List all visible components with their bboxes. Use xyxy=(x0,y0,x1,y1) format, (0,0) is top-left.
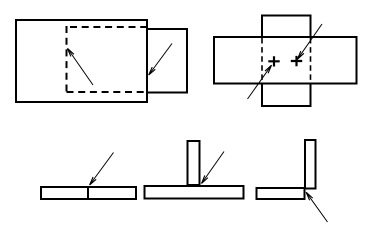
corner joint: horizontal plate xyxy=(257,188,305,199)
cruciform joint: hidden right edge of vertical plate xyxy=(310,38,312,82)
arrow from upper-right to spot weld 2 xyxy=(298,24,323,59)
butt joint: plate bar xyxy=(41,187,136,199)
lap joint: hidden outline of lower plate, left dashed edge xyxy=(66,26,68,93)
cruciform joint: hidden left edge of vertical plate xyxy=(261,38,263,82)
lap joint: hidden outline, bottom dashed edge xyxy=(67,91,147,93)
corner joint: vertical plate xyxy=(305,140,316,189)
arrow to tee joint root xyxy=(202,152,225,184)
arrow to visible edge of lap joint xyxy=(149,44,172,76)
arrow to corner joint from below xyxy=(306,192,327,222)
arrow to hidden edge of lap joint xyxy=(68,48,94,85)
spot weld mark 1 (plus) xyxy=(268,56,279,66)
cruciform joint: horizontal plate (overlapping) xyxy=(214,37,357,84)
lap joint: lower plate visible part (small rectangle at right) xyxy=(147,29,187,93)
lap joint: upper plate (large rectangle) xyxy=(16,20,147,102)
spot weld mark 2 (plus) xyxy=(291,56,302,66)
arrow to butt joint seam xyxy=(90,153,114,186)
cruciform joint: lower vertical plate xyxy=(262,83,311,106)
butt joint: seam line xyxy=(87,186,89,199)
tee joint: horizontal plate xyxy=(145,186,244,199)
cruciform joint: upper vertical plate xyxy=(262,16,311,38)
tee joint: vertical plate xyxy=(188,141,200,185)
lap joint: hidden outline, top dashed edge xyxy=(70,26,146,28)
arrow from lower-left to spot weld 1 xyxy=(248,65,272,99)
